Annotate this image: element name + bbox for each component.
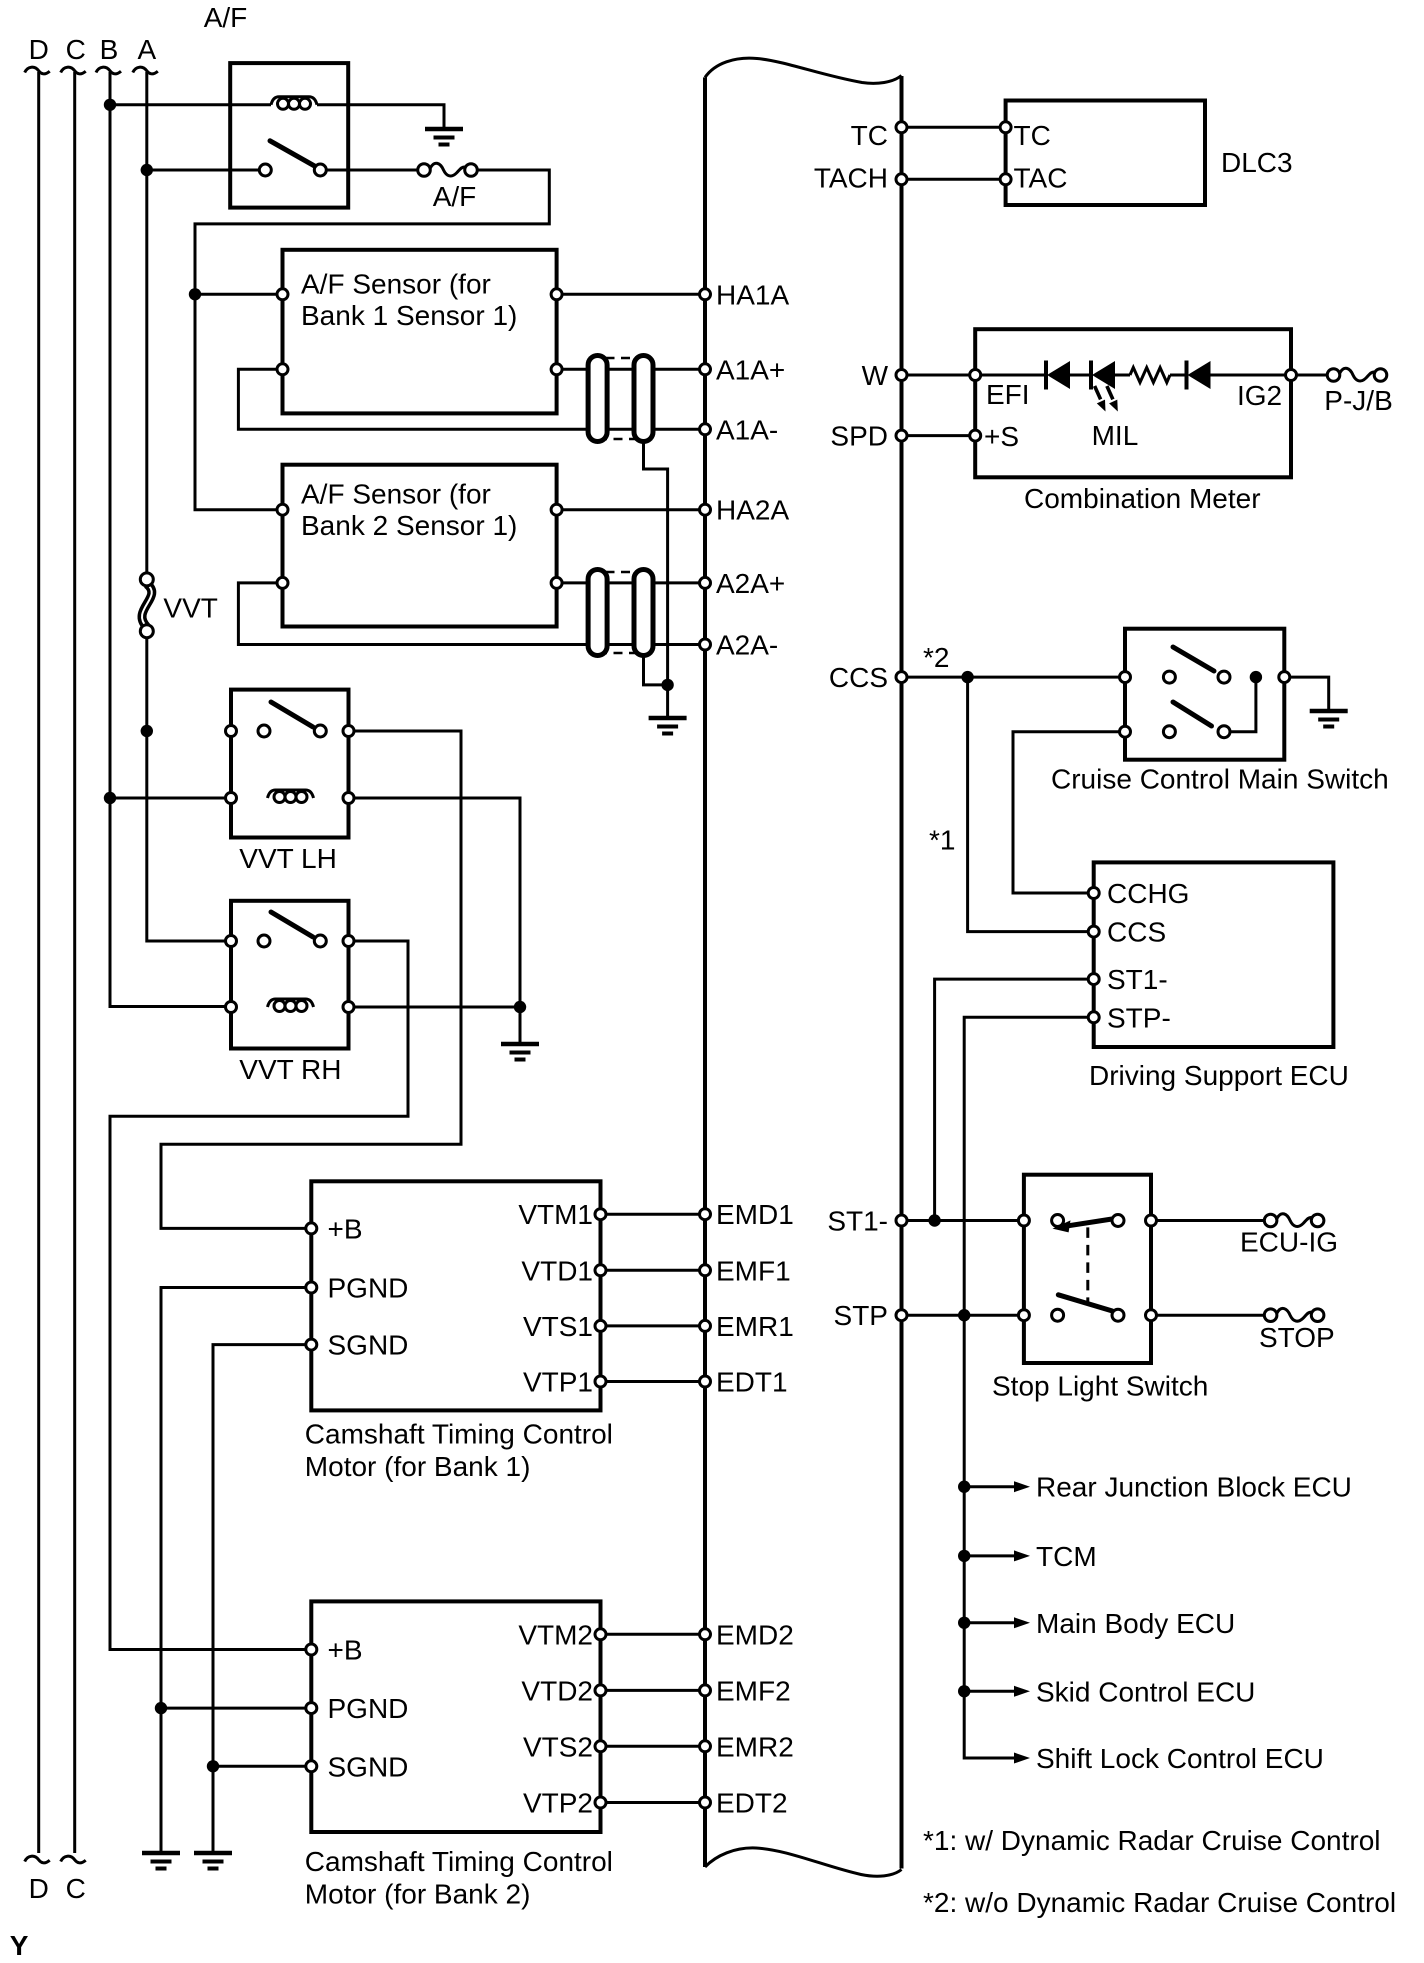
svg-text:DLC3: DLC3 — [1221, 147, 1293, 178]
wire VTD1 to EMF1 — [601, 1269, 706, 1272]
svg-text:Motor (for Bank 2): Motor (for Bank 2) — [305, 1879, 531, 1910]
svg-text:VTM1: VTM1 — [518, 1199, 593, 1230]
svg-text:ST1-: ST1- — [1107, 964, 1168, 995]
relay VVT RH pins — [226, 936, 237, 947]
svg-text:VTM2: VTM2 — [518, 1619, 593, 1650]
pin EMF2 — [700, 1685, 711, 1696]
wire fuse A/F to sensor heaters — [195, 170, 549, 510]
relay VVT LH switch contacts — [258, 725, 270, 737]
svg-text:W: W — [862, 360, 889, 391]
ground at A/F relay — [425, 129, 463, 145]
wire VVT LH coil to ground rail — [349, 798, 521, 1043]
LED MIL arrows — [1095, 386, 1101, 399]
stop light switch bottom blade — [1058, 1295, 1112, 1311]
wire stop light switch to fuse STOP — [1151, 1314, 1263, 1317]
break rail C bottom — [61, 1856, 86, 1863]
camshaft bank1 pins — [306, 1223, 317, 1234]
svg-text:VVT LH: VVT LH — [239, 843, 337, 874]
DLC3 box — [1006, 101, 1205, 206]
svg-text:HA2A: HA2A — [716, 495, 789, 526]
twisted pair shield bank2 — [590, 572, 651, 653]
svg-text:Y: Y — [10, 1930, 29, 1961]
wire diode1 to MIL LED — [1070, 374, 1091, 377]
junction STP — [958, 1309, 970, 1321]
arrow to Main Body ECU — [964, 1621, 1016, 1624]
svg-text:STP: STP — [834, 1300, 888, 1331]
A/F sensor bank2 box — [283, 465, 557, 627]
wire TACH to DLC3 TAC — [902, 178, 1006, 181]
arrow to Rear Junction Block ECU — [964, 1485, 1016, 1488]
svg-text:Main Body ECU: Main Body ECU — [1036, 1608, 1235, 1639]
svg-text:Skid Control ECU: Skid Control ECU — [1036, 1676, 1255, 1707]
wire VVT RH coil to ground rail — [349, 1006, 521, 1009]
wire SPD to +S — [902, 434, 976, 437]
svg-text:CCS: CCS — [1107, 917, 1166, 948]
svg-text:A1A-: A1A- — [716, 414, 778, 445]
wire W to EFI — [902, 374, 976, 377]
svg-text:A2A-: A2A- — [716, 630, 778, 661]
svg-text:EDT2: EDT2 — [716, 1788, 788, 1819]
svg-text:+B: +B — [328, 1635, 363, 1666]
wire STP distribution rail — [964, 1315, 1014, 1758]
relay VVT LH coil — [268, 790, 314, 803]
wire resistor to diode 3 — [1170, 374, 1187, 377]
svg-text:Bank 2 Sensor 1): Bank 2 Sensor 1) — [301, 510, 517, 541]
pin DLC3 TAC — [1000, 174, 1011, 185]
junction cruise switch common — [1250, 671, 1262, 683]
wire A2A+ — [557, 581, 705, 584]
junction arrow 3 — [958, 1617, 970, 1629]
svg-text:VTP2: VTP2 — [523, 1788, 593, 1819]
wire DSE STP- branch — [964, 1017, 1093, 1315]
pin HA1A — [700, 289, 711, 300]
wire rail D — [37, 72, 40, 1853]
junction VVT coil grounds — [514, 1001, 526, 1013]
junction on rail A at VVT LH switch — [141, 725, 153, 737]
svg-text:Bank 1 Sensor 1): Bank 1 Sensor 1) — [301, 300, 517, 331]
svg-text:+B: +B — [328, 1213, 363, 1244]
wire ST1- to stop light switch — [902, 1219, 1024, 1222]
wire CCS branch to DSE CCS — [968, 677, 1094, 932]
svg-text:CCHG: CCHG — [1107, 878, 1189, 909]
wire PGND bank2 — [161, 1707, 311, 1710]
svg-text:SGND: SGND — [328, 1751, 409, 1782]
svg-text:Stop Light Switch: Stop Light Switch — [992, 1371, 1208, 1402]
relay VVT RH switch blade — [271, 912, 313, 937]
wire STP to stop light switch — [902, 1314, 1024, 1317]
cruise switch pins — [1120, 672, 1131, 683]
camshaft timing motor bank2 box — [311, 1601, 600, 1832]
wire cruise switch to CCHG — [1013, 732, 1125, 893]
stop light switch pins — [1018, 1215, 1029, 1226]
cruise switch contacts — [1163, 671, 1175, 683]
svg-text:A1A+: A1A+ — [716, 354, 785, 385]
svg-text:A2A+: A2A+ — [716, 568, 785, 599]
svg-text:*2: w/o Dynamic Radar Cruise C: *2: w/o Dynamic Radar Cruise Control — [923, 1887, 1396, 1918]
arrow to Shift Lock Control ECU — [964, 1757, 1016, 1760]
relay VVT LH box — [231, 690, 349, 838]
twisted pair loops bank1 — [588, 356, 607, 442]
wire TC to DLC3 — [902, 126, 1006, 129]
LED MIL — [1091, 361, 1115, 390]
driving support ECU box — [1094, 862, 1334, 1047]
svg-text:+S: +S — [984, 421, 1019, 452]
break rail D top — [25, 67, 50, 74]
junction arrow 2 — [958, 1550, 970, 1562]
svg-text:PGND: PGND — [328, 1273, 409, 1304]
pin EDT2 — [700, 1797, 711, 1808]
wire VVT LH switch to +B bank1 — [161, 731, 461, 1228]
relay A/F switch contacts — [259, 164, 271, 176]
pin CCS (ECM) — [896, 672, 907, 683]
pin A1A+ — [700, 364, 711, 375]
svg-text:TCM: TCM — [1036, 1541, 1097, 1572]
junction shield drains — [661, 679, 673, 691]
svg-text:STOP: STOP — [1259, 1322, 1335, 1353]
wire B node to A/F relay coil — [110, 103, 271, 106]
relay VVT LH pins — [226, 726, 237, 737]
stop light switch dashed link — [1086, 1227, 1089, 1304]
DSE pins — [1088, 888, 1099, 899]
svg-text:VTD2: VTD2 — [521, 1675, 593, 1706]
svg-text:P-J/B: P-J/B — [1324, 385, 1392, 416]
svg-text:VTS2: VTS2 — [523, 1731, 593, 1762]
diode D3 — [1187, 361, 1211, 390]
ground at PGND — [142, 1853, 180, 1869]
junction arrow 1 — [958, 1481, 970, 1493]
pin TC (ECM) — [896, 122, 907, 133]
pin W (ECM) — [896, 370, 907, 381]
wire VTM1 to EMD1 — [601, 1213, 706, 1216]
cruise switch bottom blade — [1173, 702, 1212, 726]
pin STP (ECM) — [896, 1310, 907, 1321]
A/F sensor bank1 box — [283, 250, 557, 414]
twisted pair shield bank1 — [590, 358, 651, 439]
relay A/F box — [230, 63, 348, 208]
svg-text:ECU-IG: ECU-IG — [1240, 1227, 1338, 1258]
ground at SGND — [194, 1853, 232, 1869]
break rail D bottom — [25, 1856, 50, 1863]
svg-text:A: A — [137, 34, 156, 65]
junction on rail A at A/F relay switch — [141, 164, 153, 176]
junction arrow 4 — [958, 1685, 970, 1697]
pin EMF1 — [700, 1265, 711, 1276]
wire HA1A — [557, 293, 705, 296]
svg-text:IG2: IG2 — [1237, 380, 1282, 411]
shield drain bank2 — [644, 656, 668, 685]
svg-text:TC: TC — [851, 120, 888, 151]
junction on rail B at A/F relay coil — [104, 99, 116, 111]
svg-text:EMR1: EMR1 — [716, 1311, 794, 1342]
camshaft bank2 pins — [306, 1644, 317, 1655]
fuse A/F — [418, 163, 478, 176]
wire CCS to cruise switch — [902, 676, 1126, 679]
svg-text:D: D — [29, 34, 49, 65]
pin EMD2 — [700, 1629, 711, 1640]
svg-text:EMD1: EMD1 — [716, 1199, 794, 1230]
svg-text:EMR2: EMR2 — [716, 1731, 794, 1762]
junction heater feed bank1 — [189, 288, 201, 300]
junction SGND — [207, 1760, 219, 1772]
svg-text:STP-: STP- — [1107, 1002, 1171, 1033]
svg-text:*2: *2 — [923, 642, 949, 673]
wire SGND bank2 — [213, 1765, 311, 1768]
svg-text:TACH: TACH — [814, 162, 888, 193]
svg-text:CCS: CCS — [829, 662, 888, 693]
svg-text:Cruise Control Main Switch: Cruise Control Main Switch — [1051, 764, 1389, 795]
wire shield drains to ground — [666, 685, 669, 717]
svg-text:EDT1: EDT1 — [716, 1367, 788, 1398]
svg-text:A/F Sensor (for: A/F Sensor (for — [301, 479, 491, 510]
ground at sensor shields — [649, 718, 687, 734]
A/F sensor bank1 pins — [277, 289, 288, 300]
pin DLC3 TC — [1000, 122, 1011, 133]
wire A node to A/F relay switch — [147, 169, 259, 172]
wire VTP1 to EDT1 — [601, 1380, 706, 1383]
break rail B top — [96, 67, 121, 74]
pin ST1- (ECM) — [896, 1215, 907, 1226]
combination meter box — [975, 329, 1291, 477]
wire VTS1 to EMR1 — [601, 1324, 706, 1327]
stop light switch top blade — [1068, 1219, 1112, 1226]
svg-text:A/F Sensor (for: A/F Sensor (for — [301, 269, 491, 300]
svg-text:VVT RH: VVT RH — [239, 1054, 341, 1085]
wire LED to resistor — [1114, 374, 1130, 377]
wire VTP2 to EDT2 — [601, 1801, 706, 1804]
svg-text:D: D — [29, 1873, 49, 1904]
wire VTM2 to EMD2 — [601, 1633, 706, 1636]
relay VVT RH coil — [268, 999, 314, 1012]
cruise switch top blade — [1173, 647, 1214, 671]
fuse STOP — [1264, 1308, 1324, 1321]
pin TACH (ECM) — [896, 174, 907, 185]
svg-text:Camshaft Timing Control: Camshaft Timing Control — [305, 1419, 613, 1450]
svg-text:A/F: A/F — [204, 2, 248, 33]
svg-text:EMF2: EMF2 — [716, 1675, 791, 1706]
wire HA2A — [557, 508, 705, 511]
wire rail C — [73, 72, 76, 1853]
svg-text:B: B — [100, 34, 119, 65]
wire IG2 to fuse P-J/B — [1291, 374, 1327, 377]
wire EFI to diode 1 — [975, 374, 1046, 377]
svg-text:*1: w/ Dynamic Radar Cruise Co: *1: w/ Dynamic Radar Cruise Control — [923, 1825, 1381, 1856]
pin A1A- — [700, 424, 711, 435]
svg-text:Shift Lock Control ECU: Shift Lock Control ECU — [1036, 1743, 1324, 1774]
junction ST1- — [928, 1214, 940, 1226]
pin EMR1 — [700, 1320, 711, 1331]
camshaft timing motor bank1 box — [311, 1181, 600, 1410]
wire PGND bank1 to ground — [161, 1288, 311, 1853]
wire diode3 to IG2 — [1211, 374, 1292, 377]
resistor MIL — [1130, 368, 1170, 383]
wire rail A to VVT RH relay switch — [147, 72, 231, 941]
svg-text:ST1-: ST1- — [827, 1206, 888, 1237]
svg-text:*1: *1 — [929, 825, 955, 856]
fuse ECU-IG — [1264, 1214, 1324, 1227]
svg-text:MIL: MIL — [1092, 420, 1139, 451]
svg-text:Motor (for Bank 1): Motor (for Bank 1) — [305, 1451, 531, 1482]
wire stop light switch to fuse ECU-IG — [1151, 1219, 1263, 1222]
svg-text:VTS1: VTS1 — [523, 1311, 593, 1342]
relay VVT LH switch blade — [271, 702, 313, 727]
ECM right edge — [900, 76, 904, 1869]
pin EDT1 — [700, 1376, 711, 1387]
svg-text:Rear Junction Block ECU: Rear Junction Block ECU — [1036, 1472, 1352, 1503]
twisted pair loops bank2 — [588, 570, 607, 656]
ground at VVT relays — [501, 1044, 539, 1060]
wire SGND bank1 to ground — [213, 1345, 311, 1852]
ECM bottom torn edge — [705, 1848, 902, 1876]
wire A1A+ — [557, 368, 705, 371]
connector VVT on rail A — [142, 584, 152, 627]
svg-text:VVT: VVT — [163, 593, 217, 624]
pin EMR2 — [700, 1741, 711, 1752]
svg-text:VTD1: VTD1 — [521, 1255, 593, 1286]
wire A/F relay coil to ground — [317, 105, 444, 128]
A/F sensor bank2 pins — [277, 504, 288, 515]
wire cruise switch to ground — [1284, 677, 1328, 710]
pin IG2 — [1286, 370, 1297, 381]
svg-text:C: C — [66, 1873, 86, 1904]
wire B to VVT LH coil — [110, 797, 231, 800]
fuse P-J/B — [1327, 368, 1387, 381]
svg-text:Camshaft Timing Control: Camshaft Timing Control — [305, 1846, 613, 1877]
pin +S — [970, 430, 981, 441]
break rail C top — [61, 67, 86, 74]
cruise switch link wire — [1230, 677, 1256, 732]
ECM top torn edge — [705, 58, 902, 83]
pin HA2A — [700, 504, 711, 515]
svg-text:EMD2: EMD2 — [716, 1619, 794, 1650]
wire A/F relay switch to fuse A/F — [326, 169, 417, 172]
wire VVT RH switch to +B bank2 — [110, 941, 408, 1650]
svg-text:Driving Support ECU: Driving Support ECU — [1089, 1060, 1349, 1091]
cruise control main switch box — [1125, 629, 1284, 760]
svg-text:EMF1: EMF1 — [716, 1255, 791, 1286]
svg-text:SPD: SPD — [830, 421, 888, 452]
relay VVT RH switch contacts — [258, 935, 270, 947]
wire heater feed to A/F sensor 1 — [195, 293, 283, 296]
pin SPD (ECM) — [896, 430, 907, 441]
break rail A top — [133, 67, 158, 74]
stop light switch box — [1024, 1175, 1151, 1363]
pin EMD1 — [700, 1209, 711, 1220]
diode D1 — [1046, 361, 1070, 390]
svg-text:VTP1: VTP1 — [523, 1367, 593, 1398]
arrow to Skid Control ECU — [964, 1690, 1016, 1693]
wire rail B to VVT RH relay coil — [110, 72, 231, 1007]
wire sensor2 to A2A- — [238, 583, 705, 645]
relay A/F switch blade — [270, 141, 316, 167]
wire sensor1 to A1A- — [238, 369, 705, 429]
svg-text:SGND: SGND — [328, 1330, 409, 1361]
svg-text:A/F: A/F — [433, 181, 477, 212]
svg-text:TAC: TAC — [1014, 163, 1068, 194]
svg-text:TC: TC — [1014, 120, 1051, 151]
ECM left edge — [703, 77, 707, 1867]
junction PGND — [155, 1702, 167, 1714]
wire VTD2 to EMF2 — [601, 1689, 706, 1692]
svg-text:Combination Meter: Combination Meter — [1024, 483, 1261, 514]
relay A/F coil — [271, 97, 317, 110]
wire VTS2 to EMR2 — [601, 1745, 706, 1748]
svg-text:C: C — [66, 34, 86, 65]
relay VVT RH box — [231, 901, 349, 1049]
junction CCS branch — [961, 671, 973, 683]
svg-text:PGND: PGND — [328, 1693, 409, 1724]
wire DSE ST1- branch — [935, 979, 1094, 1220]
stop light switch contacts — [1052, 1215, 1064, 1227]
svg-text:EFI: EFI — [986, 379, 1030, 410]
pin EFI — [970, 370, 981, 381]
junction on rail B at VVT LH coil — [104, 792, 116, 804]
svg-text:HA1A: HA1A — [716, 279, 789, 310]
pin A2A- — [700, 639, 711, 650]
pin A2A+ — [700, 577, 711, 588]
shield drain bank1 — [644, 442, 668, 685]
ground at cruise switch — [1310, 711, 1348, 727]
arrow to TCM — [964, 1554, 1016, 1557]
